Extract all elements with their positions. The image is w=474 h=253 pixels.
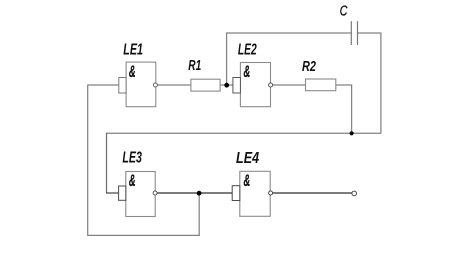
svg-text:&: &: [129, 171, 136, 190]
svg-text:R1: R1: [188, 57, 201, 74]
junction node LE3/LE4/feedback: [197, 191, 202, 196]
junction node R2/C/mid: [350, 131, 354, 135]
svg-text:&: &: [244, 62, 251, 81]
svg-text:&: &: [244, 171, 251, 190]
resistor R1: [191, 79, 220, 91]
wire R2 drop vertical: [351, 85, 353, 134]
resistor R2: [306, 79, 336, 91]
logic gate LE2: [233, 62, 273, 107]
wire LE1 output to R1: [156, 84, 191, 86]
logic gate LE1: [119, 62, 158, 107]
svg-text:LE3: LE3: [122, 149, 142, 166]
wire capacitor right: [358, 32, 382, 34]
wire LE2 output to R2: [273, 84, 306, 86]
wire LE3 output to LE4: [155, 192, 232, 194]
svg-text:C: C: [340, 4, 348, 20]
svg-text:&: &: [129, 62, 136, 81]
wire LE3 riser: [106, 133, 108, 193]
logic gate LE4: [232, 171, 272, 216]
capacitor C: [351, 21, 357, 45]
svg-text:LE1: LE1: [123, 42, 143, 59]
wire junction-to-bottom vertical: [198, 193, 200, 236]
wire LE3 input: [106, 192, 119, 194]
wire right vertical: [380, 33, 382, 133]
output terminal: [352, 191, 357, 196]
wire LE4 output: [273, 192, 352, 194]
svg-text:R2: R2: [302, 58, 316, 75]
wire R2 output: [336, 84, 352, 86]
wire LE1 input: [88, 84, 119, 86]
wire R1 to LE2 input: [220, 84, 233, 86]
wire middle horizontal node: [107, 132, 382, 134]
wire bottom feedback horizontal: [87, 234, 200, 236]
wire capacitor riser: [226, 33, 228, 85]
junction node R1/LE2/C: [224, 83, 229, 88]
logic gate LE3: [119, 171, 158, 216]
svg-text:LE2: LE2: [238, 42, 257, 59]
wire capacitor left: [226, 32, 351, 34]
svg-text:LE4: LE4: [236, 150, 259, 167]
wire left feedback vertical: [87, 85, 89, 236]
